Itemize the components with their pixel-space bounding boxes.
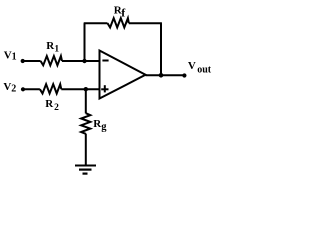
wire R1 to op-amp inverting input: [62, 60, 100, 62]
wire V1 to R1: [23, 60, 41, 62]
node V1 terminal dot: [21, 59, 25, 63]
label V1: [4, 50, 17, 63]
svg-text:V: V: [4, 50, 12, 62]
resistor Rf: [108, 18, 129, 27]
node A junction dot (inverting input / feedback tap): [82, 59, 86, 63]
svg-text:V: V: [3, 81, 11, 93]
node B junction dot (non-inverting input / Rg tap): [84, 87, 88, 91]
label Vout: [188, 60, 212, 76]
label R1: [46, 40, 59, 55]
resistor R1: [41, 56, 62, 65]
wire Rg to ground: [85, 134, 87, 165]
wire feedback left vertical: [84, 23, 86, 61]
resistor Rg: [81, 113, 90, 134]
op-amp U1: [100, 51, 146, 99]
ground: [75, 166, 96, 174]
label Rg: [93, 118, 107, 133]
svg-text:2: 2: [54, 103, 59, 113]
wire feedback top right segment: [129, 22, 162, 24]
svg-text:g: g: [101, 122, 107, 133]
label R2: [45, 98, 59, 113]
wire feedback top left segment: [84, 22, 108, 24]
svg-text:R: R: [45, 98, 54, 110]
node Vout terminal dot: [182, 73, 186, 77]
node V2 terminal dot: [21, 87, 25, 91]
svg-text:V: V: [188, 60, 196, 72]
label Rf: [114, 5, 127, 20]
wire feedback right vertical: [160, 23, 162, 75]
wire op-amp output: [146, 74, 185, 76]
svg-text:1: 1: [54, 45, 59, 55]
svg-text:out: out: [197, 65, 212, 76]
wire V2 to R2: [23, 88, 40, 90]
node output junction dot: [159, 73, 164, 78]
label V2: [3, 81, 16, 94]
svg-text:1: 1: [12, 52, 17, 63]
svg-text:2: 2: [11, 84, 16, 95]
wire non-inverting node to Rg: [85, 89, 87, 113]
wire R2 to op-amp non-inverting input: [61, 88, 99, 90]
resistor R2: [40, 84, 61, 93]
